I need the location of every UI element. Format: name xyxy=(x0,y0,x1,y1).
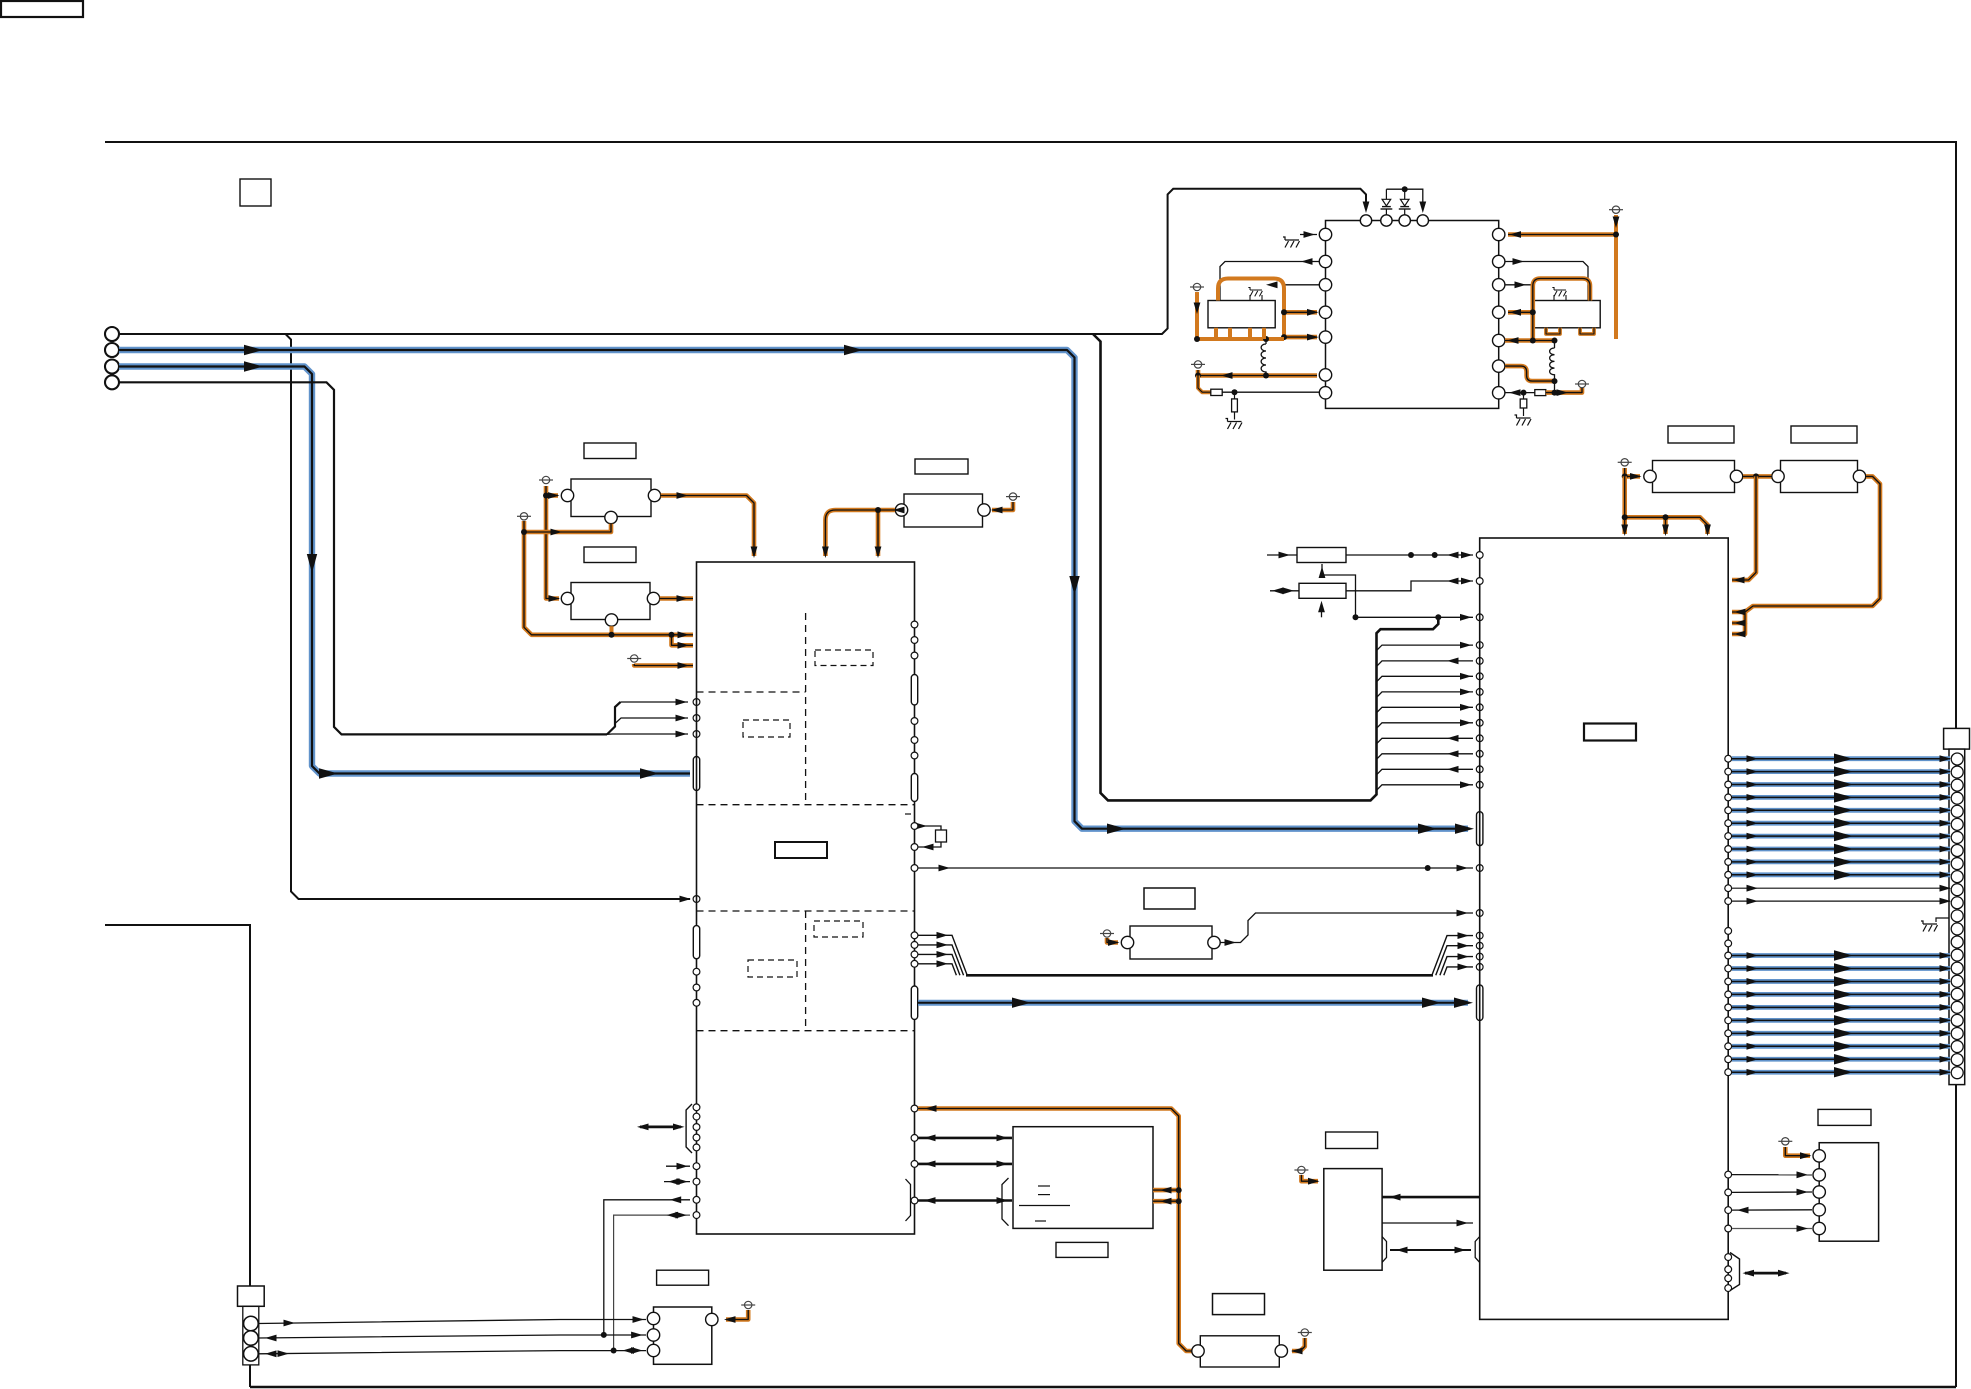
IC1 wide pin blue link xyxy=(911,986,917,1020)
IC1 wide pin for blue bus xyxy=(693,757,699,791)
IC1 left-edge wide pin (unused) xyxy=(693,926,699,959)
M1 right pin 4 xyxy=(1493,306,1505,318)
connector CN2 pin 16 xyxy=(1951,949,1963,961)
resistor jumper R10 on IC1 right edge xyxy=(918,826,941,830)
parallel data wire 2 IC1 to IC2 xyxy=(911,942,918,949)
parallel data wire 3 IC1 to IC2 xyxy=(911,951,918,958)
sheet border (left lower tail) xyxy=(105,925,250,1286)
power terminal B8 xyxy=(1191,361,1205,368)
blue output wire group1 line 2 xyxy=(1725,768,1732,775)
bus fan wire 2 into IC2 pin xyxy=(1377,645,1474,651)
B9 orange drop to M1 pin 1 xyxy=(1614,215,1618,339)
orange feed B2 rail down to IC1 xyxy=(524,521,693,635)
connector CN2 pin 21 xyxy=(1951,1014,1963,1026)
connector CN2 pin 4 xyxy=(1951,792,1963,804)
bus fan wire 11 into IC2 pin xyxy=(1377,785,1474,791)
M1 left pin 5 xyxy=(1319,331,1331,343)
bus fan wire 6 into IC2 pin xyxy=(1377,707,1474,713)
driver block U6 label box xyxy=(657,1270,709,1285)
M1 left pin 4 xyxy=(1319,306,1331,318)
orange supply net IC1 to U3 and CF7 xyxy=(911,1105,918,1112)
VR2 internal ground mark xyxy=(1552,287,1566,296)
bus fan wire 8 into IC2 pin xyxy=(1377,738,1474,744)
M1 right pin 7 xyxy=(1493,387,1505,399)
bidirectional bus arrow at IC2 serial port xyxy=(1745,1272,1786,1275)
CF5 pin left xyxy=(1644,470,1656,482)
blue output wire group1 line 3 xyxy=(1725,781,1732,788)
bus fan wire 3 into IC2 pin xyxy=(1377,661,1474,667)
IC1 internal dashed partition horizontal upper xyxy=(697,691,806,693)
tuner module M1 body xyxy=(1326,221,1499,409)
U5 left pin 1 xyxy=(1813,1150,1825,1162)
power terminal B1 above CF1 xyxy=(539,476,553,483)
connector CN2 pin 14 xyxy=(1951,923,1963,935)
wire M1-L3 to orange riser xyxy=(1284,284,1320,286)
resistor R2 net into IC2 pin 581 xyxy=(1270,590,1299,592)
orange branch of rail into IC1 second pin xyxy=(672,635,694,646)
blue output wire group2 line 5 xyxy=(1725,1004,1732,1011)
connector CN2 pin 1 xyxy=(1951,753,1963,765)
blue output wire group1 line 10 xyxy=(1725,871,1732,878)
connector CN2 pin 7 xyxy=(1951,831,1963,843)
IC1 host port bracket xyxy=(686,1104,692,1153)
VR1 internal ground mark xyxy=(1248,287,1262,296)
blue output wire group2 line 3 xyxy=(1725,978,1732,985)
IC1 internal dashed partition row 1 xyxy=(697,804,915,806)
power terminal B3 xyxy=(627,655,641,662)
power terminal B11 xyxy=(1298,1329,1312,1336)
M1 top pin 2 xyxy=(1381,215,1392,226)
blue output wire group2 line 4 xyxy=(1725,991,1732,998)
M1 right pin 3 xyxy=(1493,279,1505,291)
IC1 bottom pin stub 1 xyxy=(693,1163,700,1170)
blue bus wire CN1-3 to IC1 xyxy=(119,367,690,774)
wire split row A xyxy=(621,701,689,703)
connector CN2 pin 6 xyxy=(1951,818,1963,830)
wire split riser xyxy=(607,702,621,734)
connector CN2 pin 22 xyxy=(1951,1027,1963,1039)
CN3 pin 3 xyxy=(244,1347,259,1362)
audio block U5 body xyxy=(1819,1143,1878,1242)
connector CN2 pin 23 xyxy=(1951,1041,1963,1053)
blue output wire group1 line 7 xyxy=(1725,833,1732,840)
blue output wire group2 line 6 xyxy=(1725,1017,1732,1024)
M1 right pin 6 xyxy=(1493,360,1505,372)
CN3 wire 1 to U6 xyxy=(259,1320,647,1324)
varactor diode D1 xyxy=(1385,209,1387,215)
U5 left pin 3 xyxy=(1813,1186,1825,1198)
microcontroller U2 main body (right IC) xyxy=(1480,538,1729,1319)
VR1 bottom stub pair 1 xyxy=(1214,328,1218,339)
IC1 left-edge pin 1003 xyxy=(693,999,700,1006)
bus wire IC1 to U3 line 3 xyxy=(911,1197,918,1204)
U5 left pin 4 xyxy=(1813,1204,1825,1216)
M1 right pin 2 xyxy=(1493,255,1505,267)
M1 top pin 4 xyxy=(1417,215,1428,226)
blue output wire group1 line 9 xyxy=(1725,859,1732,866)
IC1 pin route to CN3 wire 2 xyxy=(693,1196,700,1203)
blue data wire IC1 to IC2 xyxy=(918,1000,1468,1006)
CF1 pin right xyxy=(648,489,660,501)
bus fan wire 9 into IC2 pin xyxy=(1377,754,1474,760)
parallel data bundle trunk xyxy=(966,974,1433,977)
IC1 right-edge wide pin 675-705 xyxy=(911,675,917,706)
orange stub to U3 pin a xyxy=(1153,1188,1176,1193)
blue output wire group1 line 4 xyxy=(1725,794,1732,801)
blue output wire group2 line 7 xyxy=(1725,1030,1732,1037)
CF6 pin left xyxy=(1772,470,1784,482)
connector CN2 pin 18 xyxy=(1951,975,1963,987)
IC1 right-edge pin 756 xyxy=(911,752,918,759)
M1 left pin 6 xyxy=(1319,369,1331,381)
power terminal B10 xyxy=(1575,380,1589,387)
regulator VR2 body xyxy=(1533,301,1600,328)
IC1 internal dashed partition row 2 xyxy=(697,910,915,912)
connector CN2 pin 3 xyxy=(1951,779,1963,791)
wire M1-L2 to regulator top xyxy=(1220,262,1320,301)
power terminal B14 xyxy=(741,1301,755,1308)
ceramic filter CF6 label box xyxy=(1791,426,1857,443)
output wire group1 thin line 1 xyxy=(1725,885,1732,892)
connector CN2 pin 2 xyxy=(1951,766,1963,778)
wire branch at node (291,334) down to IC1 pin xyxy=(286,334,691,899)
power terminal B7 upper xyxy=(1190,283,1204,290)
ground G3 below R6 xyxy=(1515,415,1532,426)
op-amp U1 main body (left IC) xyxy=(697,562,915,1234)
IC1 bottom pin stub 2 xyxy=(693,1178,700,1185)
U6 left pin 3 xyxy=(647,1344,659,1356)
orange feed B3 to IC1 pin xyxy=(634,664,693,666)
orange rail B6 into IC2 top (3 drops) xyxy=(1622,476,1627,534)
wire U4 to IC2 thick xyxy=(1382,1196,1479,1199)
VR2 bottom stub pair 2 xyxy=(1580,328,1594,334)
connector CN2 pin 10 xyxy=(1951,871,1963,883)
orange feed B11 to CF7 xyxy=(1292,1338,1305,1351)
sheet border tail to bottom connector xyxy=(249,1365,251,1387)
M1 left pin 7 xyxy=(1319,387,1331,399)
IC1 right-edge pin 721 xyxy=(911,718,918,725)
sheet border (bottom edge) xyxy=(250,1386,1956,1388)
bidirectional bus arrow at IC1 host port xyxy=(640,1126,681,1129)
connector CN2 pin 13 xyxy=(1951,910,1963,922)
CF6 output orange to IC2 right-edge pins xyxy=(1732,476,1880,612)
M1 top pin 3 xyxy=(1399,215,1410,226)
IC1 dashed sub-block C xyxy=(814,921,863,937)
IC1 pin for wire from node 291 xyxy=(693,896,700,903)
U6 left pin 1 xyxy=(647,1312,659,1324)
parallel data wire 1 IC1 to IC2 xyxy=(911,932,918,939)
connector CN1 pin 2 xyxy=(105,343,119,357)
resistor R1 branch to boxes net xyxy=(1322,564,1356,617)
ceramic filter CF3 body xyxy=(904,494,983,527)
CF3 rail branch into IC1 top xyxy=(876,510,881,556)
CN3 pin 1 xyxy=(244,1316,259,1331)
blue output wire group2 line 9 xyxy=(1725,1056,1732,1063)
wire split row C xyxy=(607,733,688,735)
IC1 host port pins xyxy=(693,1104,700,1111)
U6 right pin xyxy=(706,1313,718,1325)
blue output wire group1 line 5 xyxy=(1725,807,1732,814)
M1 right pin 5 xyxy=(1493,334,1505,346)
connector CN2 pin 12 xyxy=(1951,897,1963,909)
IC2 wide pin blue link xyxy=(1477,985,1483,1021)
orange jog M1 right pin 6 to inductor foot xyxy=(1505,366,1555,381)
audio block U5 label box xyxy=(1818,1109,1871,1125)
CF4 output wire to IC2 pin 913 xyxy=(1221,913,1474,943)
U5 left pin 2 xyxy=(1813,1169,1825,1181)
orange feed B4 to CF3 right pin xyxy=(992,502,1013,510)
ceramic filter CF7 label box xyxy=(1213,1294,1265,1315)
bus fan wire 4 into IC2 pin xyxy=(1377,676,1474,682)
connector CN3 body xyxy=(238,1286,265,1306)
blue bus wire CN1-2 to IC2 xyxy=(119,350,1468,829)
CF2 pin left xyxy=(561,592,573,604)
bus wire IC1 to U3 line 2 xyxy=(911,1161,918,1168)
ground G2 below R4 xyxy=(1226,419,1243,430)
IC1 internal dashed partition row 3 xyxy=(697,1030,915,1032)
blue output wire group2 line 10 xyxy=(1725,1069,1732,1076)
connector CN2 pin 11 xyxy=(1951,884,1963,896)
resistor R1 net into IC2 pin 555 xyxy=(1267,554,1297,556)
U6 left pin 2 xyxy=(647,1329,659,1341)
wire CN1-4 run xyxy=(119,382,607,734)
CF1 output orange to IC1 top xyxy=(661,496,754,557)
orange feed B6 to CF5 input xyxy=(1625,468,1640,476)
ceramic filter CF3 label box xyxy=(915,459,968,474)
memory IC U3 body xyxy=(1013,1127,1153,1229)
orange feed B13 to U5 xyxy=(1785,1147,1810,1156)
IC1 right-edge pin 625 xyxy=(911,621,918,628)
reset IC U4 label box xyxy=(1326,1132,1378,1149)
M1 top net xyxy=(1386,189,1422,207)
wire M1-R2 to regulator top xyxy=(1505,262,1588,301)
VR2 bottom stub pair 1 xyxy=(1546,328,1560,334)
connector CN2 pin 20 xyxy=(1951,1001,1963,1013)
connector CN2 pin 9 xyxy=(1951,858,1963,870)
bus fan wire 5 into IC2 pin xyxy=(1377,692,1474,698)
IC2 right-edge pin 931 xyxy=(1725,928,1732,935)
IC1 pin route to CN3 wire 3 xyxy=(693,1212,700,1219)
orange link CF2 bottom pin to rail xyxy=(610,626,614,633)
bus fan wire 7 into IC2 pin xyxy=(1377,723,1474,729)
M1 top pin 1 xyxy=(1360,215,1371,226)
ceramic filter CF2 body xyxy=(571,583,650,620)
inductor L1 xyxy=(1261,339,1266,376)
CF3 orange input from left rail xyxy=(825,510,895,556)
blue output wire group2 line 2 xyxy=(1725,965,1732,972)
resistor R4 vertical xyxy=(1234,392,1236,399)
orange feed B12 to U4 xyxy=(1301,1175,1318,1181)
CF3 pin right xyxy=(978,504,990,516)
inductor L2 xyxy=(1550,341,1555,393)
connector CN2 pin 17 xyxy=(1951,962,1963,974)
wire U4 to IC2 handshake xyxy=(1382,1237,1387,1263)
IC1 left-edge pin 972 xyxy=(693,968,700,975)
orange feed B14 to U6 xyxy=(726,1310,748,1320)
resistor R3 rail to M1 pin 7 xyxy=(1198,376,1211,393)
CN3 wire 2 to U6 xyxy=(259,1335,647,1338)
IC1 dashed sub-block D xyxy=(748,960,797,977)
connector CN1 pin 1 xyxy=(105,327,119,341)
CF4 pin right xyxy=(1208,936,1220,948)
ground G1 at M1 left pin 1 xyxy=(1283,237,1300,248)
power terminal B13 xyxy=(1778,1138,1792,1145)
orange rail B8 to M1 pin 6 xyxy=(1198,370,1317,376)
ceramic filter CF2 label box xyxy=(584,547,636,563)
B7 orange drop xyxy=(1195,292,1199,339)
output wire group1 thin line 2 xyxy=(1725,898,1732,905)
CF3 pin left xyxy=(895,504,907,516)
connector CN2 pin 19 xyxy=(1951,988,1963,1000)
IC1 internal dashed partition vertical upper xyxy=(805,613,807,805)
bus fan wire 1 into IC2 pin xyxy=(1356,616,1474,618)
CF6 pin right xyxy=(1853,470,1865,482)
IC2 reference label box xyxy=(1584,724,1636,741)
CF1 pin bottom xyxy=(605,511,617,523)
U5 left pin 5 xyxy=(1813,1222,1825,1234)
power terminal B12 xyxy=(1294,1166,1308,1173)
IC1 right-edge pin 656 xyxy=(911,652,918,659)
blue output wire group1 line 6 xyxy=(1725,820,1732,827)
CF7 pin right xyxy=(1275,1345,1287,1357)
connector CN3 pin strip xyxy=(243,1306,259,1365)
connector CN1 pin 4 xyxy=(105,375,119,389)
connector CN2 body xyxy=(1949,749,1965,1085)
blue output wire group1 line 1 xyxy=(1725,755,1732,762)
orange feed B5 to CF4 xyxy=(1107,938,1118,943)
IC1 dashed sub-block B xyxy=(743,720,790,737)
ceramic filter CF1 label box xyxy=(584,443,636,459)
connector CN1 pin 3 xyxy=(105,360,119,374)
ceramic filter CF5 body xyxy=(1653,461,1735,493)
bus fan wire 10 into IC2 pin xyxy=(1377,769,1474,775)
IC2 left-edge pin 555 xyxy=(1476,552,1483,559)
ceramic filter CF7 body xyxy=(1200,1336,1279,1367)
M1 left pin 2 xyxy=(1319,255,1331,267)
orange stub B1 to CF1 left pin xyxy=(546,493,558,498)
connector CN2 pin 25 xyxy=(1951,1067,1963,1079)
U3 redacted text marks xyxy=(1038,1185,1050,1187)
CF5 pin right xyxy=(1730,470,1742,482)
regulator VR1 body xyxy=(1208,301,1275,328)
ceramic filter CF5 label box xyxy=(1668,426,1734,443)
wire U4 to IC2 mid xyxy=(1382,1222,1473,1224)
connector CN2 pin 5 xyxy=(1951,805,1963,817)
CN3 pin 2 xyxy=(244,1331,259,1346)
IC1 right-edge tick xyxy=(905,813,911,815)
wire split row B xyxy=(615,718,688,724)
IC2 serial port bracket xyxy=(1730,1253,1740,1291)
VR1 bottom stub pair 2 xyxy=(1248,328,1252,339)
M1 left pin 3 xyxy=(1319,279,1331,291)
U3 reference label box xyxy=(1056,1242,1108,1257)
ceramic filter CF6 body xyxy=(1781,461,1858,493)
reset IC U4 body xyxy=(1324,1169,1382,1271)
IC1 reference label box xyxy=(775,842,827,858)
signal wire IC1 to IC2 (row 868) xyxy=(918,867,1473,869)
orange link CF5 output to CF6 input and IC2 right pin xyxy=(1743,474,1772,479)
M1 right pin 1 xyxy=(1493,228,1505,240)
orange feed B1 to CF1 and CF2 inputs xyxy=(546,486,559,599)
ceramic filter CF4 body xyxy=(1130,926,1212,959)
title label box (top-left corner) xyxy=(1,1,83,17)
IC2 left-edge pin 581 xyxy=(1476,578,1483,585)
wire IC2 to U5 line 1 xyxy=(1725,1171,1732,1178)
bus wire trunk from node (1097,334) to fan riser xyxy=(1093,334,1438,800)
IC1 right-edge pin 640 xyxy=(911,637,918,644)
IC1 right-edge pin 740 xyxy=(911,737,918,744)
blue output wire group2 line 8 xyxy=(1725,1043,1732,1050)
CN3 wire 3 to U6 xyxy=(259,1351,647,1354)
CF1 pin left xyxy=(561,489,573,501)
power terminal B5 xyxy=(1100,930,1114,937)
blue output wire group1 line 8 xyxy=(1725,846,1732,853)
power terminal B6 left of CF5 xyxy=(1618,459,1632,466)
driver block U6 body xyxy=(654,1307,712,1364)
power terminal B9 above M1 right pin 1 xyxy=(1609,206,1623,213)
connector CN2 pin 8 xyxy=(1951,844,1963,856)
power terminal B4 right of CF3 xyxy=(1006,493,1020,500)
IC1 right-edge wide pin 774-802 xyxy=(911,774,917,802)
resistor R5 rail to M1 right pin 7 xyxy=(1505,392,1535,394)
blue output wire group2 line 1 xyxy=(1725,952,1732,959)
IC2 wide pin for blue bus xyxy=(1477,812,1483,846)
CF7 pin left xyxy=(1192,1345,1204,1357)
resistor R6 vertical xyxy=(1523,393,1525,399)
parallel data wire 4 IC1 to IC2 xyxy=(911,960,918,967)
resistor R2 branch to boxes net xyxy=(1321,608,1323,617)
orange stub to U3 pin b xyxy=(1153,1199,1176,1204)
power terminal B2 left of CF1 xyxy=(517,513,531,520)
VR2 orange riser and pin feeds xyxy=(1533,279,1590,341)
VR1 orange riser and pin feeds xyxy=(1218,279,1284,340)
connector CN2 header xyxy=(1944,728,1970,749)
CF4 pin left xyxy=(1121,936,1133,948)
CF2 pin bottom xyxy=(605,614,617,626)
IC1 internal dashed partition vertical lower xyxy=(805,911,807,1031)
M1 left pin 1 xyxy=(1319,228,1331,240)
connector CN2 pin 24 xyxy=(1951,1054,1963,1066)
revision square marker xyxy=(240,179,271,206)
IC1 dashed sub-block A xyxy=(815,650,873,666)
IC2 serial port pins xyxy=(1725,1254,1732,1261)
connector CN2 pin 15 xyxy=(1951,936,1963,948)
wire CN1-1 main run xyxy=(119,189,1366,334)
wire IC2 to U5 line 4 xyxy=(1725,1225,1732,1232)
wire IC2 to U5 line 2 xyxy=(1725,1189,1732,1196)
VR1 bottom orange bus xyxy=(1197,337,1284,341)
wire IC2 to U5 line 3 xyxy=(1725,1207,1732,1214)
orange rail M1 right pin 5 xyxy=(1505,338,1555,343)
ground G4 at CN2 xyxy=(1936,918,1949,922)
varactor diode D2 xyxy=(1404,209,1406,215)
CF2 pin right xyxy=(647,592,659,604)
orange link B2 to CF1 bottom pin xyxy=(524,524,611,532)
wire M1-R3 to orange riser xyxy=(1505,284,1533,286)
ceramic filter CF4 label box xyxy=(1144,888,1195,909)
IC2 right-edge pin 943 xyxy=(1725,940,1732,947)
CF2 output orange to IC1 pin xyxy=(660,596,693,601)
bus wire IC1 to U3 line 1 xyxy=(911,1135,918,1142)
IC1 left-edge pin 988 xyxy=(693,984,700,991)
ceramic filter CF1 body xyxy=(571,479,651,517)
